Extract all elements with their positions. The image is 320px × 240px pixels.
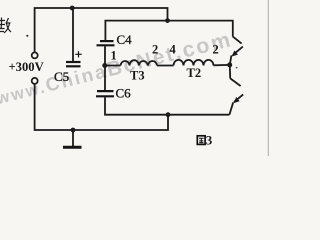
svg-text:C5: C5 [54,69,69,84]
wire: between T3 and T2 [157,65,174,67]
transistor Q2 collector diagonal (cut off at right) [230,78,240,86]
junction: top rail drop / inner top rail [165,18,170,23]
wire: C5 branch from top rail [72,8,74,61]
inductor T2 [174,60,214,66]
svg-text:4: 4 [170,43,177,57]
svg-text:2: 2 [152,43,158,57]
terminal: lower circle [32,78,38,84]
svg-text:1: 1 [111,49,117,63]
capacitor C5 plates [66,62,81,66]
svg-text:C6: C6 [116,86,132,101]
ground bar [63,146,82,149]
wire: right rail through junction [230,55,232,78]
ground stub [72,130,74,146]
page column rule [267,0,269,156]
svg-text:3: 3 [206,133,213,148]
C5 polarity plus [75,51,81,57]
wire: bottom stem from lower terminal and bottom rail [35,84,168,130]
wire: T2 right lead to right rail [214,64,230,66]
speck right of T2 junction [236,67,238,69]
transistor Q1 emitter arrowhead [231,50,238,56]
capacitor C4 plates [97,41,115,45]
junction: top rail / C5 [70,6,75,11]
junction: C4-C6 / T3 [102,63,107,68]
transistor Q1 emitter diagonal [233,47,243,55]
speck near +300V wire [26,35,28,37]
terminal: +300V upper circle [32,52,38,58]
junction: inner bottom rail / drop [166,112,171,117]
junction: C5 / bottom rail [71,128,76,133]
wire: inner loop top (C4 top to right rail) [105,21,232,40]
wire: +300V stem up and top rail to drop at x=167.5 [35,8,168,52]
partial CJK character (top-left edge) [0,18,11,34]
svg-text:C4: C4 [117,32,133,47]
svg-text:T3: T3 [130,69,145,83]
wire: T3 left lead [105,65,121,67]
transistor Q1 collector diagonal (cut off at right) [233,37,242,44]
wire: C4 bottom to C6 top [104,46,106,90]
wire: C6 bottom and inner bottom rail to right [105,97,229,115]
svg-text:2: 2 [213,43,219,57]
inductor T3 [121,60,158,65]
svg-text:T2: T2 [187,66,202,80]
capacitor C6 plates [96,91,114,96]
svg-text:+300V: +300V [9,60,44,74]
transistor Q2 emitter diagonal [234,94,243,102]
figure label 图3 [197,133,213,148]
transistor Q2 emitter arrowhead [233,97,239,103]
wire: right rail lower segment [229,102,233,114]
junction: T2 right / right rail [227,62,232,67]
